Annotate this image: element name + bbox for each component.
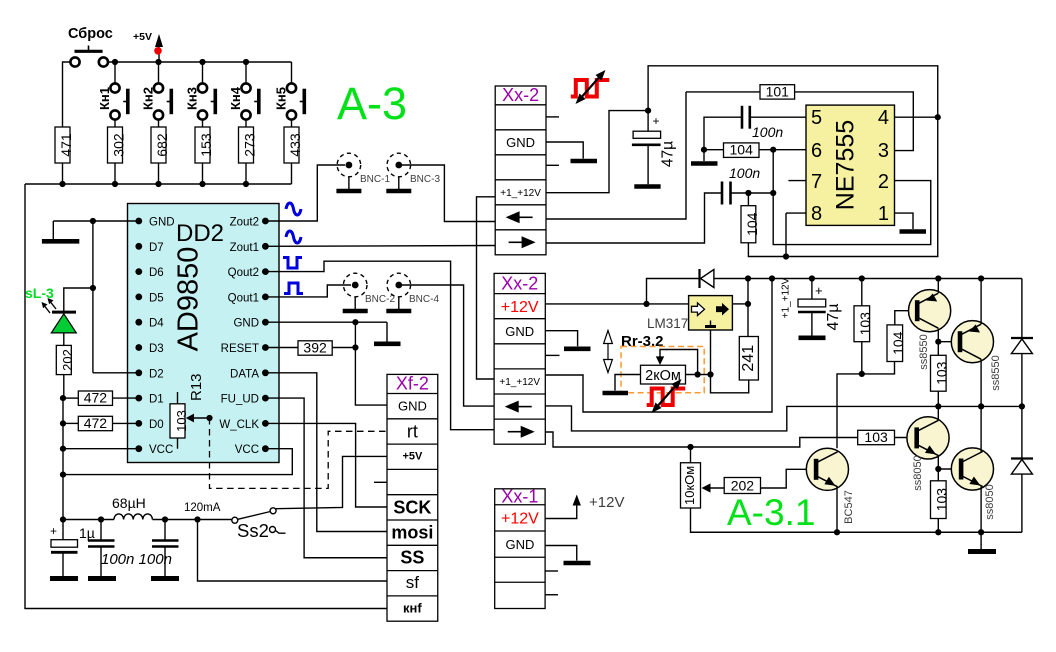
svg-text:Zout2: Zout2	[230, 217, 259, 229]
node: pin5/104 ground junction	[701, 147, 707, 153]
svg-text:D6: D6	[149, 267, 164, 279]
svg-text:+: +	[815, 283, 823, 298]
svg-text:2: 2	[878, 171, 889, 193]
wire: Q4 collector to mid rail	[980, 406, 982, 451]
svg-text:R13: R13	[188, 373, 205, 401]
svg-text:302: 302	[111, 133, 127, 157]
svg-text:Ss2: Ss2	[237, 520, 269, 541]
diode (lower, mid rail to bottom rail)	[1011, 406, 1033, 532]
ground (DD2 right GND)	[374, 341, 401, 346]
node: supply at 47µ	[645, 108, 651, 114]
svg-text:D5: D5	[149, 292, 164, 304]
wire: stub empty cell Xf-2	[374, 481, 387, 483]
wire: Xx-2 upper +12V cell to 555 supply	[546, 111, 648, 193]
potentiometer 10кОм	[681, 447, 701, 508]
svg-text:Qout2: Qout2	[228, 267, 259, 279]
pin FU_UD (right) of DD2	[221, 394, 269, 406]
svg-text:472: 472	[84, 390, 108, 406]
node: rail at BC547 emitter	[834, 529, 840, 535]
svg-text:101: 101	[766, 83, 790, 99]
IC NE7555 body	[806, 105, 895, 225]
capacitor 47µ (555 supply)	[632, 111, 677, 187]
wire: Xx-2 lower output arrow to 10k node	[545, 432, 857, 447]
connector Xx-2 (upper) body	[495, 85, 546, 255]
svg-text:103: 103	[174, 410, 189, 432]
potentiometer Rr-3.2 dashed outline	[621, 347, 704, 393]
svg-text:5: 5	[811, 107, 822, 129]
resistor 241	[739, 337, 758, 381]
svg-text:Кн4: Кн4	[228, 86, 243, 110]
svg-text:153: 153	[198, 133, 214, 157]
connector Xf-2 body	[387, 374, 438, 622]
capacitor 1µ	[50, 520, 95, 579]
power +12V marker (Xx-1)	[545, 494, 624, 519]
svg-text:RESET: RESET	[221, 343, 259, 355]
waveform pulse Qout1	[284, 283, 303, 294]
node: rail junction Kn2	[155, 59, 161, 65]
wire: BNC-4 to Xx-2(2) input arrow	[402, 285, 494, 406]
waveform red square (top, adjustable)	[571, 70, 610, 104]
svg-text:D0: D0	[149, 419, 164, 431]
node: trigger node at 100n	[770, 190, 776, 196]
svg-text:1µ: 1µ	[79, 525, 95, 541]
svg-text:BC547: BC547	[843, 490, 855, 524]
adjust range arrow (hollow)	[604, 331, 613, 373]
svg-text:FU_UD: FU_UD	[221, 394, 259, 406]
wire: ss8550 Q1 emitter to rail	[937, 279, 939, 294]
svg-text:Xf-2: Xf-2	[396, 374, 429, 394]
svg-text:кнf: кнf	[403, 601, 422, 616]
node: pin8 junction	[783, 253, 789, 259]
wire: sf branch	[198, 520, 388, 582]
svg-text:3: 3	[878, 140, 889, 162]
svg-text:273: 273	[242, 133, 258, 157]
node: 10кОм top junction	[687, 444, 693, 450]
pin W_CLK (right) of DD2	[219, 419, 268, 431]
wire: left supply column	[62, 398, 64, 519]
pin D2 (left) of DD2	[135, 368, 163, 380]
svg-text:392: 392	[303, 339, 327, 355]
svg-text:8: 8	[811, 203, 822, 225]
svg-text:BNC-1: BNC-1	[360, 174, 390, 185]
svg-text:ss8550: ss8550	[918, 334, 930, 369]
svg-text:120mA: 120mA	[184, 502, 221, 514]
wire: to DD2 VCC left	[63, 448, 139, 450]
transistor ss8550 Q2 (PNP)	[951, 321, 993, 363]
svg-text:+12V: +12V	[589, 494, 624, 511]
svg-text:47µ: 47µ	[825, 303, 842, 330]
wire: Q3 emitter to Q4 base node	[937, 455, 939, 469]
waveform red square (lower, adjustable)	[647, 379, 686, 413]
svg-text:AD9850: AD9850	[173, 247, 205, 352]
pin D1 (left) of DD2	[135, 394, 163, 406]
node: Q3 emitter / Q4 base	[935, 466, 941, 472]
resistor 101 (555 output)	[686, 83, 913, 150]
wire: bottom rail of button ladder	[25, 183, 292, 185]
connector BNC-4	[386, 273, 439, 311]
inductor 68µH	[112, 495, 152, 520]
wire: DATA to mosi	[265, 373, 387, 532]
svg-text:202: 202	[60, 349, 75, 371]
node: rail at 100n b	[162, 516, 168, 522]
node: GND wire junction	[90, 218, 96, 224]
wire: BC547 emitter to bottom rail	[836, 486, 838, 532]
ground (2кОм)	[603, 391, 629, 396]
ground (555 pin 1)	[900, 229, 927, 234]
node: mid rail at Q2/Q4	[978, 403, 984, 409]
svg-text:10кОм: 10кОм	[682, 466, 697, 505]
resistor 104 (ss8550 base)	[887, 311, 917, 362]
waveform sine Zout2	[286, 203, 301, 215]
svg-text:D3: D3	[149, 343, 164, 355]
wire: +12V output rail	[748, 278, 1022, 280]
svg-text:241: 241	[740, 345, 757, 372]
wire: pin 7 stub	[788, 180, 806, 182]
wire: ss8550 Q2 emitter to rail	[980, 279, 982, 325]
wire: pin 4 to supply	[895, 116, 938, 118]
svg-text:DATA: DATA	[230, 368, 259, 380]
ground (Xx-2 lower GND)	[564, 346, 591, 351]
svg-text:6: 6	[811, 140, 822, 162]
node: 103/104 node	[859, 371, 865, 377]
svg-text:Кн5: Кн5	[274, 87, 289, 110]
wire: stub Xx-1 cell4	[545, 570, 558, 572]
wire: common return border (buttons rail to Xf-2 pin knf)	[25, 184, 387, 609]
svg-text:sf: sf	[406, 573, 420, 592]
pin D0 (left) of DD2	[135, 419, 163, 431]
pin D6 (left) of DD2	[135, 267, 163, 279]
resistor 104 (pin 6 to gnd)	[704, 142, 806, 158]
wire: BNC-3 to Xx-2 input arrow	[402, 165, 495, 222]
resistor 103 (Q3 emitter to bottom rail)	[931, 469, 950, 532]
transistor BC547 Q5 (NPN)	[806, 448, 848, 490]
resistor 392	[298, 339, 355, 355]
ground (DD2 left GND pin)	[42, 221, 79, 241]
svg-text:ss8050: ss8050	[984, 484, 996, 519]
svg-text:VCC: VCC	[235, 444, 259, 456]
button Кн4	[228, 62, 259, 127]
node: mid rail at Q3	[935, 403, 941, 409]
node: GND/RESET junction a	[352, 319, 358, 325]
svg-text:BNC-3: BNC-3	[410, 174, 440, 185]
svg-text:47µ: 47µ	[660, 141, 677, 167]
node: rail left junction	[745, 275, 751, 281]
svg-text:471: 471	[58, 133, 74, 157]
svg-text:104: 104	[890, 331, 906, 355]
op-amp/IC DD2 AD9850 body	[128, 204, 280, 463]
svg-text:+5V: +5V	[133, 31, 152, 43]
wire: stub cell1 Xx-2 upper	[546, 116, 559, 118]
svg-text:GND: GND	[233, 318, 259, 330]
wire: 555 supply top rail	[648, 66, 938, 257]
node: GND/RESET junction b	[352, 344, 358, 350]
resistor R13 103 (trimmer inside DD2)	[170, 373, 213, 448]
svg-text:+: +	[653, 114, 660, 128]
pin Zout2 (right) of DD2	[230, 217, 269, 229]
connector Xx-1 body	[495, 487, 545, 609]
wire: stub cell3 Xx-2 lower	[545, 354, 559, 356]
svg-text:GND: GND	[398, 399, 427, 414]
wire: LM317 ADJ to 241 bottom	[711, 330, 749, 393]
wire: rail corner to Kn5	[291, 62, 293, 83]
pin GND (right) of DD2	[233, 318, 268, 330]
switch Ss2	[232, 508, 286, 541]
button Кн1	[97, 62, 128, 127]
wire: +5V rail of buttons	[108, 61, 292, 63]
node: +12V input junction	[643, 301, 649, 307]
node: rail at ss8550 Q1	[935, 275, 941, 281]
connector Xx-2 (lower) body	[494, 273, 545, 444]
svg-text:GND: GND	[149, 217, 175, 229]
pin VCC (right) of DD2	[235, 444, 269, 456]
LED sL-3	[42, 288, 93, 345]
wire: FU_UD to SS	[265, 398, 387, 558]
node: column junction VCC row	[60, 446, 66, 452]
node: rail junction Kn4	[243, 59, 249, 65]
node: ladder rail junction x=158.5	[155, 181, 161, 187]
capacitor 47µ (output rail)	[781, 277, 843, 337]
node: ladder rail junction x=202.5	[199, 181, 205, 187]
wire: output up to rail and down through 241	[747, 279, 749, 337]
connector BNC-3	[386, 153, 440, 191]
wire: pin 1 to ground	[895, 213, 914, 229]
svg-text:Кн1: Кн1	[97, 87, 112, 110]
node: LED top junction	[90, 285, 96, 291]
pin Qout2 (right) of DD2	[228, 267, 269, 279]
wire: Qout2 to Xx-2(2) output arrow	[265, 261, 495, 430]
svg-text:SS: SS	[400, 548, 424, 568]
svg-text:BNC-4: BNC-4	[409, 294, 439, 305]
resistor 103 (BC547 collector pullup)	[854, 279, 873, 374]
pin D4 (left) of DD2	[135, 318, 164, 330]
svg-text:A-3: A-3	[337, 78, 407, 129]
wire: Xx-2 lower +12V feed to output stage rail	[545, 279, 772, 413]
node: pin4/supply junction	[935, 114, 941, 120]
wire: pin 8 to supply return	[786, 212, 806, 214]
svg-text:2кОм: 2кОм	[645, 368, 681, 384]
svg-text:NE7555: NE7555	[832, 120, 860, 210]
wire: bottom emitter rail	[691, 508, 1022, 532]
wire: DD2 right GND pin to ground and Xf-2 GND	[265, 322, 387, 405]
node: ADJ junction	[707, 371, 713, 377]
node: Q1 collector / Q2 base node	[935, 339, 941, 345]
svg-text:A-3.1: A-3.1	[727, 492, 815, 533]
svg-text:SCK: SCK	[393, 498, 431, 518]
regulator LM317	[647, 296, 732, 331]
wire: GND pin to ground and D2 tie	[53, 221, 139, 373]
svg-text:W_CLK: W_CLK	[219, 419, 259, 431]
node: rail at 1µ	[60, 516, 66, 522]
node: ladder rail junction x=62.5	[59, 181, 65, 187]
svg-text:+12V: +12V	[501, 299, 539, 316]
svg-text:ss8050: ss8050	[912, 455, 924, 490]
node: rail at 100n a	[98, 516, 104, 522]
button Кн2	[141, 62, 172, 127]
ground (555 timing)	[691, 150, 718, 164]
button Кн3	[185, 62, 216, 127]
resistor 153	[195, 127, 214, 184]
wire: Qout1 to BNC-2	[265, 285, 351, 297]
svg-text:103: 103	[934, 361, 950, 385]
svg-text:Qout1: Qout1	[228, 292, 259, 304]
svg-text:Кн3: Кн3	[185, 87, 200, 110]
node: rail at ss8550 Q2	[978, 275, 984, 281]
svg-text:+1_+12V: +1_+12V	[781, 277, 792, 318]
pin DATA (right) of DD2	[230, 368, 269, 380]
wire: Xx-2 upper input arrow to 101/pin3	[546, 92, 686, 219]
svg-text:100n: 100n	[729, 165, 760, 181]
svg-text:rt: rt	[407, 422, 418, 442]
pin Qout1 (right) of DD2	[228, 292, 269, 304]
button Кн5	[274, 83, 305, 127]
node: column junction D1 row	[60, 395, 66, 401]
svg-text:100n: 100n	[752, 124, 783, 140]
capacitor 100n (first)	[88, 520, 116, 579]
resistor 273	[239, 127, 258, 184]
node: column junction VCC return row	[60, 472, 66, 478]
resistor 472 (D0)	[63, 415, 139, 431]
diode (across LM317)	[647, 269, 749, 304]
pin VCC (left) of DD2	[135, 444, 173, 456]
svg-text:4: 4	[878, 107, 889, 129]
svg-text:Сброс: Сброс	[68, 26, 113, 42]
svg-text:Xx-2: Xx-2	[502, 85, 539, 105]
ground (output stage)	[968, 532, 996, 551]
wire: BC547 collector node	[837, 362, 895, 449]
wire: R13 wiper dashed link to Xf-2 pin rt	[210, 418, 388, 488]
svg-text:ss8550: ss8550	[990, 355, 1002, 390]
svg-text:103: 103	[864, 429, 888, 445]
wire: stub cell3 Xx-2 upper	[546, 164, 559, 166]
resistor 103 (ss8050 Q3 base)	[858, 429, 917, 445]
node: rail at +12V feed	[769, 275, 775, 281]
svg-text:103: 103	[934, 488, 950, 512]
svg-text:103: 103	[857, 312, 873, 336]
svg-text:+5V: +5V	[402, 451, 423, 463]
waveform pulse Qout2	[283, 258, 302, 269]
pin Zout1 (right) of DD2	[230, 242, 269, 254]
transistor ss8550 Q1 (PNP)	[909, 290, 951, 332]
button Сброс	[70, 46, 108, 67]
resistor 103 (Q1 collector to mid rail)	[931, 342, 950, 407]
svg-text:+: +	[50, 524, 57, 538]
svg-text:Кн2: Кн2	[141, 87, 156, 110]
wire: Xx-2 lower input arrow to driver mid rail	[545, 406, 1022, 431]
svg-text:LM317: LM317	[647, 316, 688, 331]
connector BNC-1	[336, 153, 390, 191]
node: rail at 103	[859, 275, 865, 281]
svg-text:D2: D2	[149, 368, 164, 380]
node: rail at 47µ output cap	[809, 275, 815, 281]
svg-text:Rr-3.2: Rr-3.2	[621, 333, 664, 350]
wire: Xx-2 upper +12V link down to Xx-2 lower	[477, 197, 496, 379]
svg-text:100n 100n: 100n 100n	[101, 551, 172, 568]
svg-text:682: 682	[154, 133, 170, 157]
node: rail at ground	[978, 529, 984, 535]
svg-text:104: 104	[730, 142, 754, 158]
wire: +5V filtered rail	[63, 519, 114, 521]
power +5V marker	[133, 31, 163, 62]
resistor 472 (D1)	[63, 390, 139, 406]
potentiometer 2кОм	[615, 350, 711, 391]
capacitor 100n (trigger)	[722, 165, 773, 205]
wire: LM317 output to rail	[732, 303, 748, 305]
svg-text:7: 7	[811, 171, 822, 193]
wire: switch to Xf-2 +5V cell	[276, 456, 387, 508]
capacitor 100n (pin 5)	[704, 106, 806, 150]
capacitor 100n (second)	[151, 520, 179, 579]
svg-text:GND: GND	[505, 537, 534, 552]
wire: Xx-2 lower GND to ground	[545, 331, 577, 347]
svg-text:+1_+12V: +1_+12V	[499, 377, 540, 388]
node: wiper junction	[695, 371, 701, 377]
wire: rail after inductor to switch	[153, 519, 233, 521]
wire: Xx-2 upper output arrow to 100n trigger	[546, 193, 722, 243]
node: pin6 node	[770, 147, 776, 153]
wire: stub Xx-1 cell5	[545, 594, 558, 596]
wire: Xx-2 lower +12V to LM317 input	[545, 303, 688, 305]
wire: ss8550 Q2 base	[938, 341, 960, 343]
transistor ss8050 Q4 (NPN)	[951, 448, 993, 490]
svg-text:104: 104	[744, 212, 760, 236]
pin RESET (right) of DD2	[221, 343, 269, 355]
svg-text:68µH: 68µH	[112, 495, 146, 511]
ground (Xx-2 upper GND)	[571, 159, 598, 164]
node: ladder rail junction x=115	[112, 181, 118, 187]
wire: Xx-2 upper GND cell to ground	[546, 142, 583, 159]
svg-text:Zout1: Zout1	[230, 242, 259, 254]
svg-text:D7: D7	[149, 242, 164, 254]
node: rail junction Kn1	[112, 59, 118, 65]
wire: ss8550 Q2 collector to mid rail	[980, 359, 982, 406]
svg-text:1: 1	[878, 203, 889, 225]
resistor 202 (BC547 base, from 10кОм wiper)	[702, 469, 817, 493]
svg-text:sL-3: sL-3	[25, 285, 54, 301]
resistor 202 (LED)	[56, 345, 75, 398]
svg-text:GND: GND	[505, 324, 534, 339]
svg-text:Xx-2: Xx-2	[501, 274, 538, 294]
resistor 471	[55, 127, 74, 184]
wire: pin 2 to trigger node	[773, 150, 931, 245]
ground (Xx-1 GND)	[545, 546, 590, 564]
resistor 433	[284, 127, 303, 184]
connector BNC-2	[343, 273, 396, 311]
node: ladder rail junction x=246	[243, 181, 249, 187]
svg-text:GND: GND	[506, 135, 535, 150]
svg-text:VCC: VCC	[149, 444, 173, 456]
wire: Zout1 to Xx-2 output arrow	[265, 245, 495, 248]
wire: Q4 base	[938, 468, 960, 470]
wire: DD2 VCC right return	[63, 449, 292, 475]
wire: Q3 collector to mid rail	[937, 406, 939, 420]
node: column junction D0 row	[60, 420, 66, 426]
diode (upper, rail to mid rail)	[1011, 279, 1033, 407]
svg-text:D1: D1	[149, 394, 164, 406]
wire: Сброс left contact down to R 471	[63, 62, 71, 127]
resistor 302	[108, 127, 127, 184]
wire: W_CLK to SCK	[265, 423, 387, 507]
pin D3 (left) of DD2	[135, 343, 163, 355]
resistor 682	[151, 127, 170, 184]
node: LM317 output junction	[745, 301, 751, 307]
wire: ss8550 Q1 collector	[937, 329, 939, 342]
svg-text:Xx-1: Xx-1	[501, 487, 538, 507]
waveform sine Zout1	[286, 231, 301, 243]
svg-text:mosi: mosi	[391, 523, 433, 543]
svg-text:DD2: DD2	[176, 220, 224, 247]
transistor ss8050 Q3 (NPN)	[907, 417, 949, 459]
svg-text:+12V: +12V	[501, 511, 539, 528]
